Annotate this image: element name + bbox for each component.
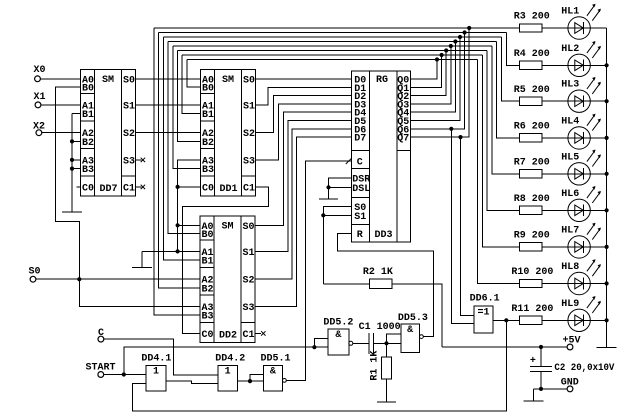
wire bus Q3 horizontal — [173, 45, 492, 47]
svg-text:DD5.1: DD5.1 — [261, 354, 291, 365]
svg-text:HL1: HL1 — [561, 7, 579, 18]
gate DD5.2 output inversion bubble — [349, 341, 353, 345]
wire X1 to DD7 A1 — [41, 104, 81, 106]
wire ground to DD7 B3 — [72, 168, 81, 170]
LED HL2 cathode bar — [583, 59, 585, 71]
wire S0 branch to DD7 B0 — [56, 87, 81, 279]
wire ground to DD7 B1 — [72, 113, 81, 115]
svg-text:R6 200: R6 200 — [514, 122, 550, 133]
svg-text:C: C — [357, 158, 363, 169]
wire C1 to DD5.3 lower input — [374, 342, 401, 344]
LED HL8 cathode bar — [583, 278, 585, 290]
ground symbol for DSR/DSL — [319, 198, 338, 200]
wire DD4.1 output to DD4.2 lower input — [166, 381, 218, 383]
wire bus Q2 right drop to resistor R8 — [487, 51, 519, 211]
svg-text:S1: S1 — [243, 248, 255, 259]
svg-text:B2: B2 — [202, 138, 214, 149]
svg-text:R1 1K: R1 1K — [369, 351, 380, 381]
svg-text:B0: B0 — [202, 84, 214, 95]
gate DD5.2 body — [328, 329, 349, 355]
svg-text:B3: B3 — [202, 312, 214, 323]
wire HL1 to +5V rail — [590, 27, 607, 29]
wire register Q3 output riser to bus — [411, 46, 451, 104]
svg-text:DD4.1: DD4.1 — [141, 354, 171, 365]
svg-text:B3: B3 — [202, 165, 214, 176]
svg-text:X1: X1 — [34, 92, 46, 103]
wire R3 to LED HL1 — [542, 27, 568, 29]
junction on Q6 line — [449, 127, 453, 131]
LED HL4 emission arrows — [587, 115, 595, 126]
svg-text:C1: C1 — [243, 330, 255, 341]
register DD3 body — [352, 71, 411, 242]
svg-text:S1: S1 — [123, 101, 135, 112]
svg-text:RG: RG — [376, 75, 388, 86]
svg-text:B1: B1 — [202, 257, 214, 268]
wire DD1 S1 to DD3 D1 — [256, 87, 352, 105]
svg-text:HL7: HL7 — [561, 225, 579, 236]
junction DD5.1 input bracket — [248, 379, 252, 383]
wire DD1 C1 carry to DD2 C0 — [183, 187, 269, 334]
junction START branch — [122, 372, 126, 376]
ground symbol for DD7 inputs — [71, 114, 73, 212]
LED HL6 emission arrows — [587, 187, 595, 198]
svg-text:HL6: HL6 — [561, 189, 579, 200]
gate DD5.1 output inversion bubble — [283, 379, 287, 383]
wire bus Q5 left drop to adder B input — [163, 37, 200, 260]
gate DD5.1 body — [263, 365, 282, 391]
junction Q4 riser on bus — [453, 39, 457, 43]
wire Q7 tap to DD6.1 upper input — [461, 137, 474, 316]
svg-text:C1: C1 — [243, 183, 255, 194]
junction DD6.1 output / feedback — [504, 318, 508, 322]
wire DD5.2 output to capacitor C1 — [353, 342, 369, 344]
svg-text:=1: =1 — [478, 307, 490, 318]
svg-text:B0: B0 — [202, 230, 214, 241]
svg-text:C2 20,0x10V: C2 20,0x10V — [554, 363, 614, 374]
wire DD2 S1 to DD3 D5 — [256, 121, 352, 252]
wire bus Q0 left drop to adder B input — [187, 60, 201, 88]
wire register Q6 output riser to bus — [411, 33, 465, 129]
wire register Q7 output riser to bus — [411, 28, 470, 137]
wire bus Q0 right drop to resistor R10 — [478, 60, 520, 284]
svg-text:&: & — [270, 367, 276, 378]
junction rail at HL5 — [605, 172, 609, 176]
wire DD5.1 upper input bracket — [250, 374, 263, 381]
LED HL1 emission arrows — [587, 5, 595, 16]
junction C2 on +5V — [539, 345, 543, 349]
wire ground riser to DD1 A3 — [178, 160, 201, 252]
wire DD3 DSR to ground — [329, 178, 352, 199]
junction at DD7 B3 — [70, 167, 74, 171]
wire DD7 S1 to DD1 A1 — [136, 104, 201, 106]
svg-text:HL8: HL8 — [561, 262, 579, 273]
wire ground to DD2 A1 — [142, 250, 200, 252]
svg-text:HL2: HL2 — [561, 44, 579, 55]
svg-text:S3: S3 — [243, 156, 255, 167]
junction Q2 riser on bus — [444, 48, 448, 52]
wire HL9 to +5V rail — [590, 319, 607, 321]
wire bus Q6 horizontal — [159, 32, 507, 34]
junction on Q7 line — [458, 135, 462, 139]
svg-text:HL3: HL3 — [561, 80, 579, 91]
wire GND lead — [534, 388, 567, 390]
wire DD3 DSL tap — [329, 186, 352, 188]
svg-text:C0: C0 — [202, 183, 214, 194]
wire R2 right to +5V — [392, 284, 442, 347]
wire bus Q5 horizontal — [163, 36, 501, 38]
svg-text:S1: S1 — [354, 212, 366, 223]
svg-text:S0: S0 — [243, 222, 255, 233]
svg-text:DD4.2: DD4.2 — [215, 354, 245, 365]
svg-text:R9 200: R9 200 — [514, 231, 550, 242]
wire feedback from R11 node to DD4.1 lower input — [133, 320, 507, 411]
svg-text:D7: D7 — [354, 134, 366, 145]
wire HL2 to +5V rail — [590, 64, 607, 66]
wire register Q1 output riser to bus — [411, 55, 442, 87]
junction Q5 riser on bus — [458, 35, 462, 39]
LED HL3 cathode bar — [583, 95, 585, 107]
wire ground to DD2 A0 — [178, 224, 200, 226]
wire HL7 to +5V rail — [590, 246, 607, 248]
wire bus Q4 right drop to resistor R6 — [497, 42, 520, 138]
junction Q7 riser on bus — [467, 26, 471, 30]
LED HL7 cathode bar — [583, 241, 585, 253]
junction rail at HL3 — [605, 99, 609, 103]
wire R4 to LED HL2 — [542, 64, 568, 66]
LED HL8 emission arrows — [587, 260, 595, 271]
wire DD4.2 output to DD5.1 inputs — [237, 380, 263, 382]
svg-text:S2: S2 — [243, 129, 255, 140]
svg-text:DSL: DSL — [352, 184, 370, 195]
svg-text:1: 1 — [153, 367, 159, 378]
LED HL5 cathode bar — [583, 168, 585, 180]
adder DD2 body — [200, 216, 255, 343]
wire S0 input to DD2 A2 — [36, 278, 200, 280]
svg-text:1: 1 — [225, 367, 231, 378]
wire bus Q3 left drop to adder B input — [173, 46, 201, 169]
ground symbol for R1 — [386, 379, 388, 402]
junction C1/R1/DD5.3 — [384, 341, 388, 345]
stub DD7 C1 unused — [136, 186, 142, 188]
junction rail at HL6 — [605, 208, 609, 212]
wire DD2 S0 to DD3 D4 — [256, 112, 352, 225]
wire START branch to DD5.2 inputs — [124, 347, 328, 374]
junction DSL on DSR ground lead — [326, 185, 330, 189]
wire HL8 to +5V rail — [590, 283, 607, 285]
wire DD2 S3 to DD3 D7 — [256, 137, 352, 306]
wire R9 to LED HL7 — [542, 246, 568, 248]
wire HL5 to +5V rail — [590, 173, 607, 175]
junction C2 on GND — [539, 387, 543, 391]
wire +5V feed — [442, 346, 567, 348]
svg-text:X0: X0 — [34, 65, 46, 76]
wire HL4 to +5V rail — [590, 137, 607, 139]
junction rail at HL9 — [605, 318, 609, 322]
svg-text:R3 200: R3 200 — [514, 12, 550, 23]
LED HL7 emission arrows — [587, 224, 595, 235]
stub DD7 C0 — [77, 186, 81, 188]
junction at DD1 C0 — [176, 185, 180, 189]
junction DD5.2 input bracket — [312, 345, 316, 349]
svg-text:S1: S1 — [243, 101, 255, 112]
svg-text:DD6.1: DD6.1 — [470, 293, 500, 304]
wire START to DD4.1 upper input — [104, 374, 146, 376]
junction rail at HL7 — [605, 245, 609, 249]
wire DD3 S1 tap — [323, 214, 351, 216]
stub DD7 S3 unused — [136, 159, 142, 161]
svg-text:B1: B1 — [202, 110, 214, 121]
wire DD1 S0 to DD3 D0 — [256, 78, 352, 80]
svg-text:DD3: DD3 — [375, 230, 393, 241]
wire bus Q7 left drop to adder B input — [154, 28, 200, 315]
wire register Q0 output riser to bus — [411, 60, 438, 80]
svg-text:S3: S3 — [123, 156, 135, 167]
wire S0 branch to DD2 A3 — [79, 279, 200, 306]
adder DD7 body — [81, 70, 136, 197]
wire bus Q1 right drop to resistor R9 — [482, 55, 519, 247]
svg-text:SM: SM — [222, 75, 234, 86]
svg-text:&: & — [335, 330, 341, 341]
wire clock from DD5.1 output to DD3 C — [286, 161, 351, 380]
svg-text:B1: B1 — [82, 110, 94, 121]
wire bracket to DD5.3 upper input — [387, 334, 401, 344]
svg-text:S0: S0 — [243, 75, 255, 86]
svg-text:R10 200: R10 200 — [511, 267, 553, 278]
LED HL4 cathode bar — [583, 132, 585, 144]
wire X2 to DD7 A2 — [42, 132, 81, 134]
LED HL9 cathode bar — [583, 314, 585, 326]
wire +5V rail — [606, 28, 608, 347]
junction at DD2 A0 — [176, 223, 180, 227]
svg-text:R: R — [357, 230, 363, 241]
LED HL1 cathode bar — [583, 22, 585, 34]
svg-text:R4 200: R4 200 — [514, 49, 550, 60]
svg-text:DD2: DD2 — [219, 331, 237, 342]
svg-text:HL4: HL4 — [561, 116, 579, 127]
ground symbol chassis — [533, 389, 535, 401]
wire bus Q6 right drop to resistor R4 — [506, 33, 519, 66]
wire DD3 R reset from DD5.3 output — [337, 233, 433, 336]
svg-text:S2: S2 — [123, 129, 135, 140]
svg-text:SM: SM — [222, 222, 234, 233]
junction Q0 riser on bus — [435, 57, 439, 61]
wire ground to DD1 C0 — [178, 186, 201, 188]
svg-text:S2: S2 — [243, 276, 255, 287]
wire DD6.1 output to R11 — [493, 319, 519, 321]
junction Q1 riser on bus — [440, 53, 444, 57]
svg-text:HL9: HL9 — [561, 299, 579, 310]
svg-text:DD5.3: DD5.3 — [398, 313, 428, 324]
adder DD1 body — [201, 70, 256, 197]
gate DD6.1 body — [474, 306, 493, 333]
junction rail at HL8 — [605, 281, 609, 285]
wire ground to DD7 B2 — [72, 140, 81, 142]
gate DD5.3 body — [401, 324, 420, 353]
junction S0/DD7-B0 branch — [77, 277, 81, 281]
wire R8 to LED HL6 — [542, 209, 568, 211]
wire bus Q1 left drop to adder B input — [182, 55, 200, 114]
wire X0 to DD7 A0 — [40, 78, 80, 80]
junction Q3 riser on bus — [449, 44, 453, 48]
rail end bar — [597, 346, 617, 348]
wire bus Q2 horizontal — [178, 50, 488, 52]
svg-text:DD7: DD7 — [100, 184, 118, 195]
junction S1 tap — [321, 213, 325, 217]
svg-text:R11 200: R11 200 — [511, 304, 553, 315]
junction at DD7 B2 — [70, 139, 74, 143]
svg-text:+: + — [530, 356, 536, 367]
wire DD7 S2 to DD1 A2 — [136, 132, 201, 134]
junction rail at HL4 — [605, 136, 609, 140]
LED HL6 cathode bar — [583, 204, 585, 216]
svg-text:&: & — [407, 325, 413, 336]
LED HL5 emission arrows — [587, 151, 595, 162]
svg-text:C1: C1 — [123, 183, 135, 194]
svg-text:DD5.2: DD5.2 — [323, 318, 353, 329]
wire bus Q3 right drop to resistor R7 — [492, 46, 520, 174]
svg-text:B3: B3 — [82, 165, 94, 176]
junction at DD7 A3 — [70, 158, 74, 162]
svg-text:C0: C0 — [202, 330, 214, 341]
wire bus Q4 horizontal — [168, 41, 497, 43]
wire R6 to LED HL4 — [542, 137, 568, 139]
svg-text:Q7: Q7 — [397, 134, 409, 145]
wire R2 pull-up to DD3 S0 — [323, 206, 351, 283]
wire bus Q0 horizontal — [187, 59, 478, 61]
LED HL3 emission arrows — [587, 78, 595, 89]
wire R5 to LED HL3 — [542, 100, 568, 102]
junction Q6 riser on bus — [463, 30, 467, 34]
wire DD7 S0 to DD1 A0 — [136, 78, 201, 80]
LED HL2 emission arrows — [587, 42, 595, 53]
wire R7 to LED HL5 — [542, 173, 568, 175]
wire register Q4 output riser to bus — [411, 42, 456, 113]
svg-text:B0: B0 — [82, 84, 94, 95]
svg-text:B2: B2 — [82, 138, 94, 149]
wire bus Q6 left drop to adder B input — [159, 33, 200, 288]
wire Q6 tap to DD6.1 lower input — [451, 129, 474, 324]
wire C input to DD4.2 upper input — [104, 339, 218, 375]
gate DD4.1 body — [146, 365, 166, 391]
register DD3 dynamic-input mark on C — [346, 158, 352, 164]
svg-text:R7 200: R7 200 — [514, 158, 550, 169]
svg-text:R2 1K: R2 1K — [363, 267, 393, 278]
wire DD2 S2 to DD3 D6 — [256, 129, 352, 279]
wire bus Q2 left drop to adder B input — [178, 51, 201, 142]
wire DD5.2 upper input bracket — [314, 338, 328, 347]
wire ground to DD7 A3 — [72, 159, 81, 161]
wire HL6 to +5V rail — [590, 209, 607, 211]
wire register Q5 output riser to bus — [411, 37, 461, 121]
wire bus Q7 horizontal — [154, 27, 520, 29]
wire bus Q1 horizontal — [182, 54, 482, 56]
stub DD2 C1 unused — [255, 332, 261, 334]
wire bus Q5 right drop to resistor R5 — [502, 37, 520, 101]
junction ground riser at DD2 A1 — [176, 249, 180, 253]
ground symbol for DD2 inputs — [141, 251, 143, 267]
gate DD4.2 body — [218, 365, 237, 391]
wire DD1 S2 to DD3 D2 — [256, 96, 352, 133]
wire DD1 S3 to DD3 D3 — [256, 104, 352, 160]
svg-text:B2: B2 — [202, 284, 214, 295]
svg-text:DD1: DD1 — [220, 184, 238, 195]
wire bus Q4 left drop to adder B input — [168, 42, 200, 234]
wire register Q2 output riser to bus — [411, 51, 447, 96]
junction rail at HL2 — [605, 63, 609, 67]
gate DD5.3 output inversion bubble — [420, 335, 424, 339]
svg-text:C0: C0 — [82, 183, 94, 194]
svg-text:R5 200: R5 200 — [514, 85, 550, 96]
svg-text:R8 200: R8 200 — [514, 194, 550, 205]
svg-text:S0: S0 — [123, 75, 135, 86]
wire R11 to LED HL9 — [542, 319, 568, 321]
svg-text:HL5: HL5 — [561, 152, 579, 163]
svg-text:C1 1000: C1 1000 — [359, 322, 401, 333]
LED HL9 emission arrows — [587, 297, 595, 308]
svg-text:SM: SM — [102, 75, 114, 86]
svg-text:S3: S3 — [243, 303, 255, 314]
wire HL3 to +5V rail — [590, 100, 607, 102]
wire R10 to LED HL8 — [542, 283, 568, 285]
